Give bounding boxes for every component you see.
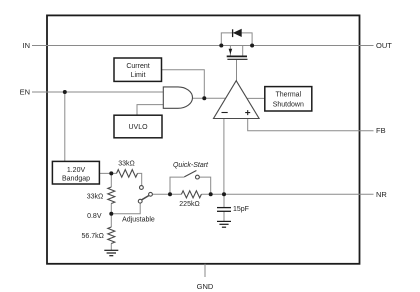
wire 56.7k to ground [110,244,112,251]
resistor R1 33k horizontal [117,170,138,178]
svg-text:0.8V: 0.8V [87,213,102,220]
block Current Limit [114,58,162,81]
svg-text:56.7kΩ: 56.7kΩ [82,233,104,240]
node EN branch junction [63,90,67,94]
resistor R3 56.7k vertical [108,227,115,244]
svg-text:IN: IN [23,41,31,50]
IC boundary border [47,15,360,263]
wire quick-start branch [170,177,211,194]
AND gate U2 enable logic [163,87,192,108]
node FET drain tap [250,44,254,48]
svg-text:UVLO: UVLO [128,124,148,131]
wire switch common to quick-start node [152,193,181,195]
wire capacitor bottom lead [223,211,225,221]
node A bandgap output [109,171,113,175]
capacitor C1 15pF [217,208,231,212]
svg-text:Bandgap: Bandgap [62,175,90,182]
op-amp U1 error amplifier [214,81,260,119]
wire UVLO to AND input [137,105,163,116]
svg-text:EN: EN [20,88,30,97]
block 1.20V Bandgap [52,161,99,184]
wire bandgap output lead [99,172,116,174]
resistor R4 225k horizontal [181,191,201,198]
node FET source tap [219,44,223,48]
wire EN branch down to bandgap [64,92,66,161]
wire EN line to AND gate [32,91,163,93]
svg-text:Limit: Limit [131,72,146,79]
svg-text:Current: Current [126,63,149,70]
svg-text:1.20V: 1.20V [67,167,86,174]
wire 33k to 0.8V node [110,204,112,214]
ground below 56.7k [104,250,118,255]
svg-text:225kΩ: 225kΩ [179,201,199,208]
switch S1 Adjustable SPDT [138,186,152,204]
svg-text:Shutdown: Shutdown [273,101,304,108]
svg-text:Thermal: Thermal [275,92,301,99]
wire body-diode branch [221,33,252,46]
wire op-amp output to gate [236,60,238,81]
svg-text:Quick-Start: Quick-Start [173,162,209,169]
wire IN-to-OUT main rail [32,45,374,47]
wire 0.8V node to 56.7k [110,214,112,227]
node quick-start right [209,192,213,196]
wire GND pin stub [204,264,206,277]
wire inverting input down to NR node [223,119,225,195]
wire between node A and vertical 33k [110,173,112,187]
wire noninverting input to FB pin [248,119,374,131]
node AND output junction [202,96,206,100]
svg-text:GND: GND [197,282,214,291]
svg-text:FB: FB [376,126,386,135]
wire 0.8V node to switch bottom throw [111,203,140,214]
svg-text:33kΩ: 33kΩ [118,160,135,167]
wire current-limit to AND output node [162,70,204,99]
wire capacitor top lead [223,194,225,207]
svg-text:15pF: 15pF [233,206,249,213]
wire AND output to op-amp input [193,97,226,99]
svg-text:OUT: OUT [376,41,392,50]
node NR junction [222,192,226,196]
resistor R2 33k vertical [108,187,115,204]
node quick-start left [168,192,172,196]
wire NR rail to NR pin [201,193,373,195]
switch S2 Quick-Start [184,171,199,180]
transistor Q1 PMOS pass FET [227,46,248,60]
wire op-amp to thermal shutdown [247,97,265,99]
svg-text:33kΩ: 33kΩ [87,194,104,201]
ground below 15pF [217,221,231,227]
svg-text:NR: NR [376,190,387,199]
wire 33k to switch top throw [138,173,142,185]
diode D1 body diode [233,29,242,37]
block Thermal Shutdown [265,87,312,111]
block UVLO [114,115,162,138]
node 0.8V tap [109,212,113,216]
svg-text:Adjustable: Adjustable [122,216,155,223]
